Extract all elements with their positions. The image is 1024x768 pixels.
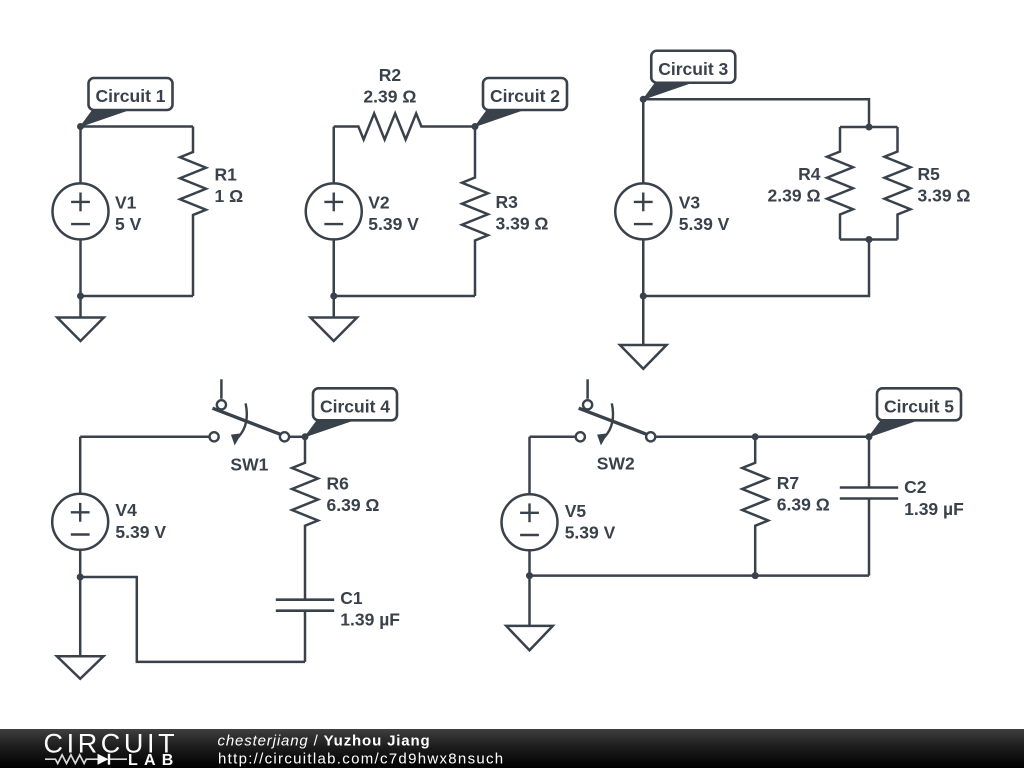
label V2 value — [368, 193, 419, 235]
resistor R1 — [180, 127, 206, 297]
svg-text:R6: R6 — [327, 474, 350, 494]
label R4 value — [768, 164, 821, 206]
node: circuit 2 bottom junction — [330, 293, 337, 300]
wire: circuit 4 top rail — [80, 436, 208, 439]
ground: circuit 2 — [310, 296, 357, 341]
svg-text:Circuit 2: Circuit 2 — [490, 86, 560, 106]
svg-text:V5: V5 — [565, 501, 587, 521]
node: circuit 5 R7 top junction — [752, 433, 759, 440]
svg-text:C2: C2 — [904, 477, 927, 497]
node: circuit 5 R7 bottom junction — [752, 572, 759, 579]
svg-text:1.39 µF: 1.39 µF — [904, 499, 964, 519]
label R2 value — [363, 65, 416, 107]
switch SW1 — [210, 379, 290, 445]
resistor R6 — [292, 437, 318, 600]
node: circuit 5 bottom-left junction — [526, 572, 533, 579]
wire: C2 bottom lead — [868, 499, 871, 576]
callout Circuit 5 — [869, 388, 961, 437]
label V5 value — [565, 501, 616, 543]
wire: circuit 1 top rail — [81, 125, 194, 128]
svg-text:C1: C1 — [340, 588, 363, 608]
wire: circuit 1 left rail — [79, 127, 82, 297]
wire: circuit 5 bottom rail — [530, 574, 870, 577]
callout Circuit 3 — [643, 51, 735, 100]
label C2 value — [904, 477, 964, 519]
wire: circuit 5 top rail right — [656, 436, 869, 439]
svg-text:R5: R5 — [918, 164, 941, 184]
resistor R4 — [827, 127, 853, 240]
resistor R5 — [885, 127, 911, 240]
svg-text:V3: V3 — [679, 193, 701, 213]
svg-text:5.39 V: 5.39 V — [368, 214, 419, 234]
resistor R2 (horizontal) — [334, 114, 475, 140]
voltage source V4 — [52, 494, 108, 550]
footer bar — [0, 729, 1024, 768]
label V1 value — [115, 192, 142, 234]
svg-text:Circuit 3: Circuit 3 — [658, 59, 728, 79]
svg-text:5.39 V: 5.39 V — [115, 522, 166, 542]
svg-text:chesterjiang / Yuzhou Jiang: chesterjiang / Yuzhou Jiang — [218, 733, 431, 750]
wire: circuit 5 top rail left — [530, 436, 575, 439]
label R1 value — [215, 164, 244, 206]
svg-text:R4: R4 — [798, 164, 821, 184]
label R7 value — [777, 473, 830, 515]
label SW2 — [597, 454, 635, 474]
label V4 value — [115, 500, 166, 542]
voltage source V3 — [615, 183, 671, 239]
voltage source V1 — [53, 183, 109, 239]
svg-text:5.39 V: 5.39 V — [679, 214, 730, 234]
wire: circuit 4 bottom return — [80, 577, 305, 662]
svg-text:1.39 µF: 1.39 µF — [340, 610, 400, 630]
wire: circuit 3 bottom rail — [643, 240, 869, 297]
svg-text:R7: R7 — [777, 473, 799, 493]
wire: circuit 2 bottom rail — [334, 295, 475, 298]
label R5 value — [918, 164, 971, 206]
wire: C2 top lead — [868, 437, 871, 488]
svg-text:R1: R1 — [215, 164, 238, 184]
svg-text:5.39 V: 5.39 V — [565, 523, 616, 543]
label C1 value — [340, 588, 400, 630]
callout Circuit 4 — [305, 388, 397, 437]
svg-text:SW1: SW1 — [230, 454, 268, 474]
svg-text:R3: R3 — [496, 192, 519, 212]
ground: circuit 1 — [57, 296, 104, 341]
svg-text:2.39 Ω: 2.39 Ω — [768, 186, 821, 206]
voltage source V2 — [306, 183, 362, 239]
wire: parallel bottom bracket — [840, 238, 898, 241]
label SW1 — [230, 454, 268, 474]
node: circuit 3 top-left junction — [640, 96, 647, 103]
label V3 value — [679, 193, 730, 235]
svg-text:V4: V4 — [115, 500, 137, 520]
svg-text:2.39 Ω: 2.39 Ω — [363, 87, 416, 107]
wire: parallel top bracket — [840, 126, 898, 129]
footer url line — [218, 750, 504, 767]
wire: circuit 1 bottom rail — [81, 295, 194, 298]
wire: circuit 3 left rail — [642, 99, 645, 296]
capacitor C1 — [276, 600, 334, 611]
node: circuit 1 bottom-left junction — [77, 293, 84, 300]
node: circuit 2 output junction — [472, 123, 479, 130]
wire: switch SW1 to node — [290, 436, 305, 439]
CircuitLab logo schematic art (resistor + diode) — [45, 754, 127, 765]
node: parallel bottom junction — [866, 236, 873, 243]
wire: circuit 3 top rail — [643, 99, 869, 127]
ground: circuit 3 — [620, 296, 667, 369]
wire: circuit 5 left rail — [528, 437, 531, 576]
wire: circuit 4 left rail — [79, 437, 82, 577]
svg-text:5 V: 5 V — [115, 214, 142, 234]
capacitor C2 — [840, 488, 898, 499]
node: parallel top junction — [866, 124, 873, 131]
ground: circuit 5 — [506, 576, 553, 651]
voltage source V5 — [502, 494, 558, 550]
node: circuit 1 top-left junction — [77, 123, 84, 130]
svg-text:3.39 Ω: 3.39 Ω — [496, 214, 549, 234]
svg-text:V1: V1 — [115, 192, 137, 212]
callout Circuit 1 — [81, 78, 173, 127]
svg-text:LAB: LAB — [128, 752, 179, 768]
footer attribution line — [218, 733, 431, 750]
CircuitLab logo wordmark LAB — [128, 752, 179, 768]
svg-text:Circuit 5: Circuit 5 — [884, 396, 954, 416]
callout Circuit 2 — [475, 78, 567, 127]
CircuitLab logo wordmark CIRCUIT — [44, 728, 179, 758]
svg-text:Circuit 1: Circuit 1 — [95, 86, 165, 106]
node: circuit 3 bottom-left junction — [640, 293, 647, 300]
svg-text:V2: V2 — [368, 193, 390, 213]
resistor R7 — [742, 437, 768, 576]
node: circuit 5 output corner — [866, 433, 873, 440]
svg-text:R2: R2 — [379, 65, 402, 85]
wire: circuit 2 left rail — [333, 127, 336, 297]
switch SW2 — [576, 379, 656, 445]
svg-text:3.39 Ω: 3.39 Ω — [918, 186, 971, 206]
resistor R3 — [462, 127, 488, 297]
label R3 value — [496, 192, 549, 234]
svg-text:Circuit 4: Circuit 4 — [320, 396, 390, 416]
node: circuit 4 switch output — [302, 433, 309, 440]
svg-text:6.39 Ω: 6.39 Ω — [777, 495, 830, 515]
ground: circuit 4 — [57, 577, 104, 679]
wire: C1 bottom lead — [304, 611, 307, 662]
svg-text:1 Ω: 1 Ω — [215, 186, 244, 206]
svg-text:http://circuitlab.com/c7d9hwx8: http://circuitlab.com/c7d9hwx8nsuch — [218, 750, 504, 767]
svg-text:6.39 Ω: 6.39 Ω — [327, 495, 380, 515]
label R6 value — [327, 474, 380, 516]
node: circuit 4 bottom-left junction — [77, 574, 84, 581]
svg-text:SW2: SW2 — [597, 454, 635, 474]
